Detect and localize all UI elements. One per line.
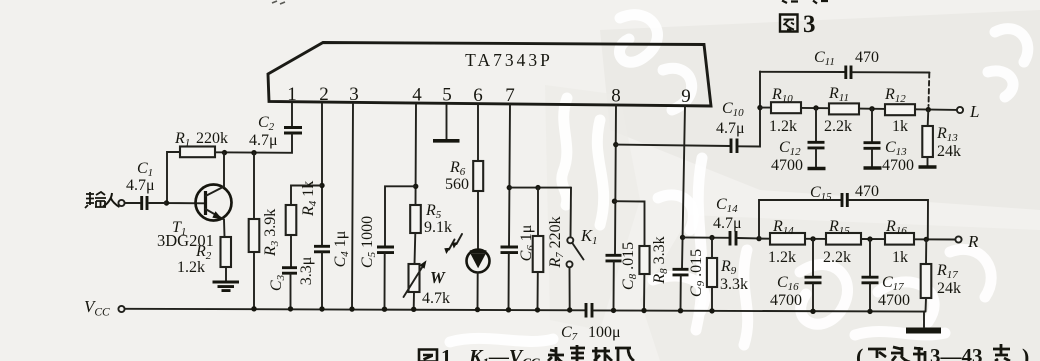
svg-text:24k: 24k [937,280,961,297]
svg-text:C5 1000: C5 1000 [359,216,378,268]
svg-text:4700: 4700 [878,292,910,309]
capacitor C2 [249,114,302,149]
caption 图1 bottom [419,345,452,361]
wire dashed drop to L output node [928,73,931,106]
svg-text:R: R [967,232,979,251]
wire C11 top line [760,71,845,73]
node pin7 branch [507,185,512,190]
wire K1 upper [570,188,573,237]
resistor R4 [286,181,319,235]
wire R9 to rail [711,287,713,311]
capacitor C15 [810,183,879,207]
svg-text:R8 3.3k: R8 3.3k [651,236,670,284]
capacitor C10 [716,100,745,153]
wire C3 to rail [290,274,292,309]
node pin8 rail [611,308,616,313]
node C17 rail [867,309,872,314]
svg-text:1.2k: 1.2k [769,118,797,135]
node R7 top [535,185,540,190]
wire branch to R4 [291,186,322,206]
resistor R5 [410,202,452,236]
wire C5 to rail [384,253,386,309]
svg-text:3—43: 3—43 [930,344,983,361]
wire C17 branch [869,239,871,276]
wire R13 to ground [927,157,929,166]
wire R4 to C3 [290,235,292,267]
node pin9 rail [678,308,683,313]
wire pin8 to C10 [616,145,730,146]
node K1 rail [567,307,572,312]
svg-text:24k: 24k [937,143,961,160]
svg-text:C8 .015: C8 .015 [620,242,639,290]
wire C16 to rail [812,284,814,312]
capacitor C11 [814,49,879,79]
wire C2 down and left to R1 node [215,134,292,153]
wire R1 left lead down to base node [167,152,204,203]
wire R9 upper [711,238,713,258]
svg-text:4.7μ: 4.7μ [713,215,742,232]
node R filter input [756,236,761,241]
wire branch to C5 [385,186,416,246]
caption K1 Vcc switch bottom [468,345,634,361]
svg-text:4.7μ: 4.7μ [126,177,155,194]
node pin7 rail [506,307,511,312]
resistor R14 [768,218,805,266]
ground R13 [919,165,937,169]
wire C6 to rail [508,253,510,309]
svg-text:4: 4 [412,85,422,106]
node R7 rail [535,307,540,312]
wire R2 to ground [225,267,227,281]
node R3 rail [251,306,256,311]
caption continued page bottom right [856,344,1029,361]
svg-text:9: 9 [681,86,691,107]
svg-text:1: 1 [441,345,452,361]
capacitor C1 [126,160,155,210]
capacitor C9 [673,249,708,297]
resistor R16 [885,218,914,266]
resistor R15 [823,218,861,266]
ground below R2 [213,282,240,291]
wire Vcc rail left segment [125,309,585,311]
wire R17 upper [925,239,927,264]
node R8 rail [641,308,646,313]
wire K1 to rail [569,267,571,310]
node pin8 to C10 [613,142,618,147]
ground C12 [808,167,826,171]
wire LED to rail [477,273,479,310]
svg-text:560: 560 [445,176,469,193]
output terminal R [955,232,979,251]
svg-text:R4 1k: R4 1k [300,181,319,217]
svg-text:TA7343P: TA7343P [465,50,553,70]
svg-text:1k: 1k [892,249,908,266]
switch K1 [567,226,598,267]
wire C13 branch [871,109,873,142]
wire pin1 to C2 [291,103,293,126]
pin5 end bar [433,139,460,143]
wire pin2 upper [321,104,323,246]
wire R8 to rail [643,274,645,311]
wire C15 to R output node [849,200,928,239]
capacitor C5 [359,216,394,268]
wire R3 branch [253,153,255,309]
node C3 rail [288,306,293,311]
wire pin9 branch to C14 [683,236,729,238]
wire rail end drop [923,312,925,327]
node R15 R16 junction [867,236,872,241]
capacitor C16 [770,274,822,309]
svg-text:R3 3.9k: R3 3.9k [262,209,281,257]
node R9 rail [709,308,714,313]
capacitor C8 [606,242,640,290]
resistor R13 [922,125,961,160]
wire C1 to base [149,202,166,204]
svg-text:3: 3 [803,11,816,38]
photodiode D1 [444,234,489,273]
resistor R10 [769,86,801,135]
wire C12 to ground [815,149,817,167]
wire R17 to rail corner [925,298,928,312]
svg-text:470: 470 [855,183,879,200]
svg-text:100μ: 100μ [588,324,621,341]
svg-text:6: 6 [473,85,483,106]
Vcc terminal [84,297,125,319]
svg-text:3.3k: 3.3k [720,276,748,293]
node L filter input [757,105,762,110]
node junction R3 top on R1 wire [251,150,256,155]
resistor R6 [445,159,483,193]
capacitor C12 [771,139,825,174]
output terminal L [957,102,980,121]
capacitor C14 [713,196,742,246]
transistor T1 3DG201 [157,153,232,250]
top edge text fragment [782,1,828,4]
node junction collector on R1 wire [222,150,227,155]
resistor R2 [177,237,231,276]
svg-text:7: 7 [505,85,515,106]
wire C15 riser left [759,200,841,239]
node R10 R11 junction [813,105,818,110]
svg-text:1: 1 [287,84,297,105]
wire C16 branch [812,239,814,277]
node pin6 rail [475,307,480,312]
svg-text:4700: 4700 [882,157,914,174]
node pin4 branch [413,184,418,189]
svg-text:C4 1μ: C4 1μ [332,231,351,268]
svg-text:2: 2 [319,84,329,105]
wire pin3 to rail [352,104,353,309]
resistor R9 [707,258,748,293]
wire pin8 to R8 [615,201,645,246]
ground C13 [864,166,882,170]
svg-text:8: 8 [611,86,621,107]
wire L filter main line [760,108,957,110]
capacitor C7 [561,303,621,343]
wire pin7 upper [509,105,510,247]
svg-text:5: 5 [442,85,452,106]
capacitor C4 [314,231,351,268]
node L output junction [926,107,931,112]
wire C10 to L filter node [739,72,761,147]
svg-text:R7 220k: R7 220k [547,216,566,268]
svg-text:1.2k: 1.2k [177,259,205,276]
svg-text:4.7μ: 4.7μ [249,132,278,149]
wire C13 to ground [871,149,873,166]
svg-text:470: 470 [855,49,879,66]
svg-text:1k: 1k [892,118,908,135]
caption 图 3 [780,11,816,38]
wire Vcc rail right segment [594,310,926,311]
resistor R3 [249,209,281,257]
ground main rail [906,328,941,334]
node R output junction [924,237,929,242]
node pin9 branch [680,235,685,240]
wire pin4 upper [415,105,418,206]
input terminal 输入 [85,192,140,208]
wire pin2 lower to rail [321,253,323,310]
wire C17 to rail [869,284,871,312]
svg-text:2.2k: 2.2k [824,118,852,135]
svg-text:220k: 220k [196,130,228,147]
node pin4 rail [411,307,416,312]
svg-text:9.1k: 9.1k [424,219,452,236]
capacitor C17 [862,274,911,309]
wire R filter main line [759,238,956,241]
wire C8 to rail [613,262,615,311]
wire R7 upper [537,188,539,236]
svg-text:W: W [430,268,446,287]
wire R13 upper [927,110,930,126]
node pin3 rail [349,306,354,311]
resistor R11 [824,85,859,135]
svg-text:): ) [1022,344,1029,361]
node pin8 to R8 [612,199,617,204]
resistor R1 [174,130,228,157]
svg-text:C9 .015: C9 .015 [688,249,707,297]
capacitor C6 [501,225,538,262]
svg-text:L: L [969,102,979,121]
node C5 rail [382,307,387,312]
capacitor C13 [864,139,915,174]
wire branch pin7 to K1 [509,187,571,189]
svg-text:4.7k: 4.7k [422,290,450,307]
svg-text:4700: 4700 [771,157,803,174]
potentiometer W [404,260,451,307]
svg-text:2.2k: 2.2k [823,249,851,266]
svg-text:4700: 4700 [770,292,802,309]
node R9 top [709,235,714,240]
wire R5 to W [414,233,417,264]
svg-text:1.2k: 1.2k [768,249,796,266]
node R14 R15 junction [810,236,815,241]
wire C14 to R filter node [738,237,760,239]
resistor R12 [884,86,915,135]
wire pin9 upper [682,106,685,269]
node pin2 branch [319,183,324,188]
resistor R8 [639,236,670,284]
svg-text:(: ( [856,344,863,361]
wire C9 to rail [680,276,682,311]
svg-text:3.3μ: 3.3μ [298,257,315,286]
node pin2 rail [319,306,324,311]
wire C11 to dashed drop [853,71,930,73]
wire C12 branch [815,108,817,142]
wire pin8 upper [615,106,616,255]
resistor R7 [533,216,566,272]
capacitor C3 [268,257,315,291]
wire pin5 stub [446,105,448,140]
node junction base [164,200,169,205]
op-amp IC U1 TA7343P body [268,43,711,107]
wire W to rail [413,292,415,309]
wire R7 to rail [537,272,539,310]
svg-text:3: 3 [349,84,359,105]
resistor R17 [921,262,961,298]
svg-text:4.7μ: 4.7μ [716,120,745,137]
node C16 rail [810,309,815,314]
node R11 R12 junction [869,106,874,111]
wire pin6 upper [477,105,479,161]
wire R6 to LED [477,191,479,250]
